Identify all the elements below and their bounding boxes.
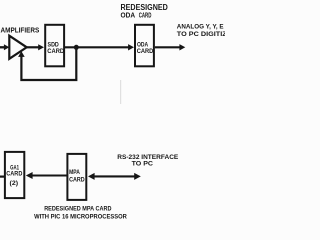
junction node xyxy=(74,45,79,50)
block SDD CARD xyxy=(45,25,64,67)
label ANALOG Y, Y, E / TO PC DIGITIZER xyxy=(177,24,237,38)
op-amp U1 (amplifier triangle) xyxy=(9,36,26,59)
label REDESIGNED ODA CARD xyxy=(121,3,169,20)
svg-text:CARD: CARD xyxy=(69,177,85,184)
svg-text:CARD: CARD xyxy=(6,171,23,178)
wire: GA1 left output stub xyxy=(0,176,4,178)
wire: SDD card to ODA card xyxy=(65,44,135,50)
svg-text:ANALOG Y, Y, E: ANALOG Y, Y, E xyxy=(177,24,224,31)
caption REDESIGNED MPA CARD WITH PIC 16 MICROPROCESSOR xyxy=(34,205,127,220)
block MPA CARD xyxy=(67,154,86,200)
wire: amplifier output to SDD card xyxy=(27,44,44,50)
label RS-232 INTERFACE TO PC xyxy=(117,154,179,168)
svg-text:MPA: MPA xyxy=(69,169,80,176)
feedback wire (junction down, left, up into amplifier) xyxy=(18,47,76,80)
wire: input line into amplifier xyxy=(0,44,9,50)
svg-text:ODA: ODA xyxy=(121,11,136,20)
svg-text:CARD: CARD xyxy=(137,48,154,55)
svg-text:CARD: CARD xyxy=(47,48,64,55)
svg-text:TO PC: TO PC xyxy=(132,160,154,167)
block GA1 CARD xyxy=(5,152,24,198)
wire: ODA output arrow to PC digitizer xyxy=(155,44,185,50)
block ODA CARD xyxy=(135,25,154,67)
svg-text:REDESIGNED MPA CARD: REDESIGNED MPA CARD xyxy=(44,205,112,212)
svg-text:TO PC DIGITIZER: TO PC DIGITIZER xyxy=(177,31,225,38)
svg-text:(2): (2) xyxy=(10,180,19,187)
wire: RS-232 bidirectional arrow xyxy=(88,173,141,180)
svg-text:CARD: CARD xyxy=(139,11,152,20)
svg-text:WITH PIC 16 MICROPROCESSOR: WITH PIC 16 MICROPROCESSOR xyxy=(34,214,127,221)
wire: MPA card to GA1 card xyxy=(26,172,67,179)
svg-text:AMPLIFIERS: AMPLIFIERS xyxy=(1,25,40,34)
faint artifact line xyxy=(120,80,122,104)
